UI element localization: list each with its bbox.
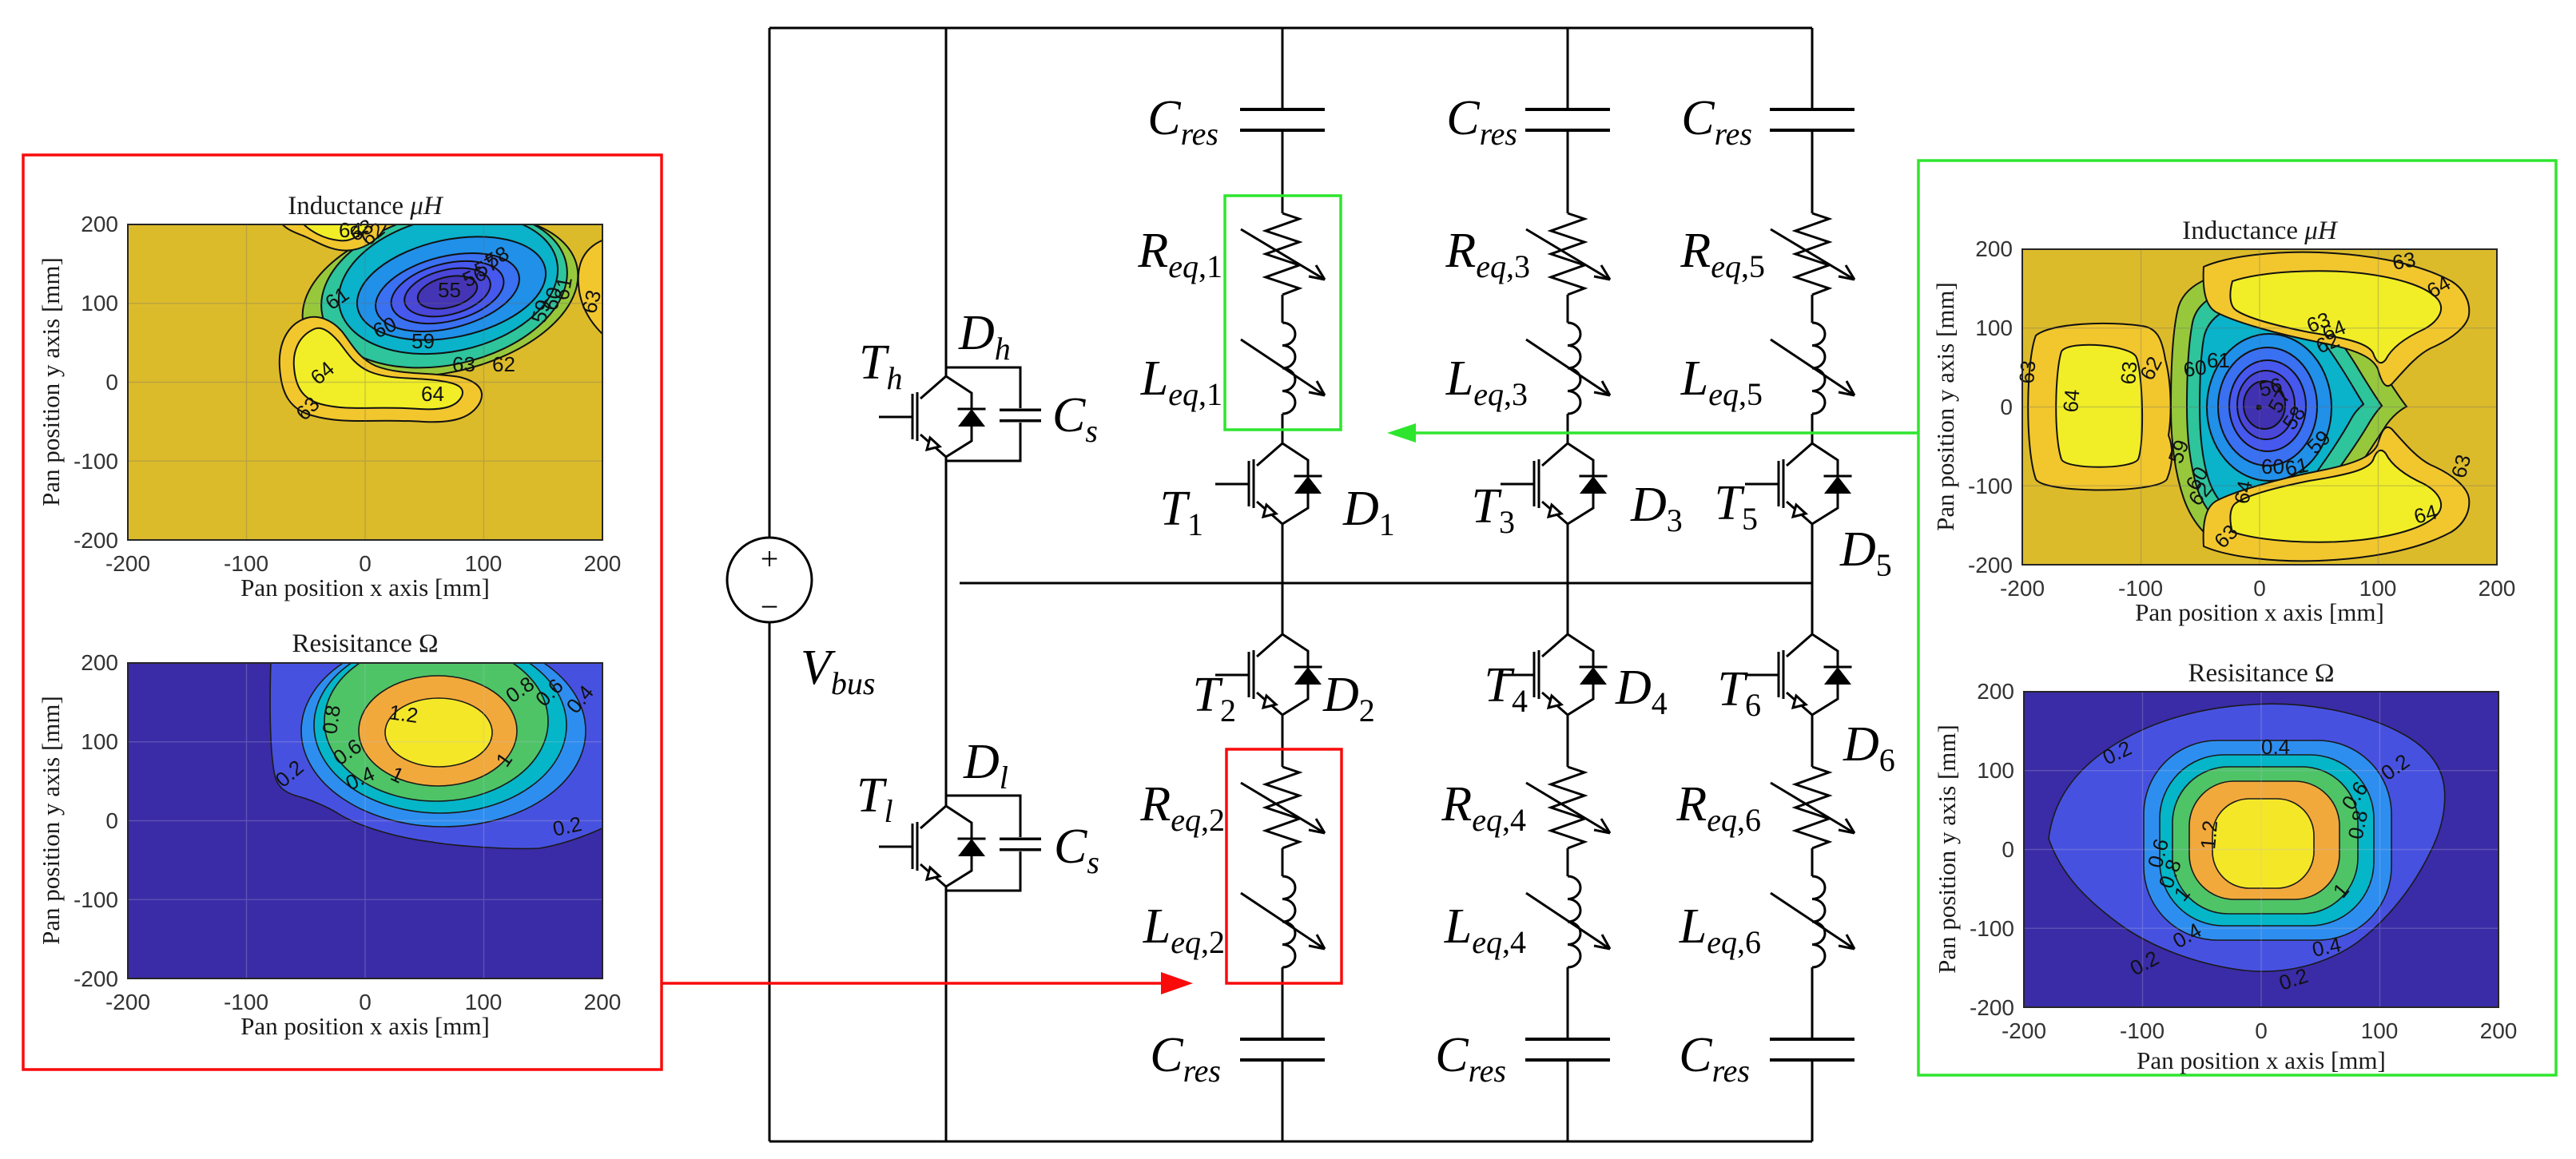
contour band 63-64 top-left (left inductance) [281,223,387,251]
svg-text:T4: T4 [1485,658,1528,719]
svg-text:Inductance μH: Inductance μH [288,192,444,220]
contour ring 62 green (left inductance) [288,191,594,401]
red highlight frame (left plots) [23,155,662,1070]
label D1 [1342,482,1395,542]
transistor T6 with diode D6 [1745,634,1852,715]
svg-text:Pan position x axis [mm]: Pan position x axis [mm] [2135,598,2384,626]
svg-text:-200: -200 [2002,1018,2046,1043]
resistor Req6 [1771,767,1854,848]
inductor Leq3 [1526,323,1610,414]
svg-text:100: 100 [2361,1018,2399,1043]
contour band 63 top-right banana (right inductance) [2204,252,2470,387]
svg-text:Cres: Cres [1435,1028,1506,1089]
svg-text:Cres: Cres [1147,91,1218,152]
svg-text:T2: T2 [1193,668,1236,728]
svg-text:Cres: Cres [1150,1028,1221,1089]
contour band 0.4 azure (left resistance) [301,635,586,827]
svg-text:D3: D3 [1630,478,1683,538]
y axis label (left resistance) [37,696,65,945]
label Leq6 [1679,899,1761,960]
transistor T3 with diode D3 [1501,443,1608,524]
label T1 [1160,482,1203,542]
label Th [859,335,902,396]
label Leq1 [1140,351,1222,412]
contour band 63 bottom-right banana (right inductance) [2204,427,2470,562]
wire top bus [769,27,1812,30]
svg-text:Pan position x axis [mm]: Pan position x axis [mm] [241,1012,490,1040]
svg-text:0: 0 [2002,837,2014,862]
label Req6 [1676,777,1761,838]
inductor Leq2 [1241,876,1325,967]
inductor Leq1 [1241,323,1325,414]
x tick labels (right inductance) [2000,576,2515,601]
svg-text:100: 100 [1975,316,2013,340]
svg-text:Leq,2: Leq,2 [1143,899,1225,960]
label T2 [1193,668,1236,728]
resistor Req2 [1241,767,1325,848]
svg-text:-200: -200 [1970,995,2014,1020]
contour ring 62 teal (right inductance) [2187,285,2382,535]
svg-text:200: 200 [584,551,622,576]
svg-text:60: 60 [2182,355,2208,382]
contour ring 56 indigo (left inductance) [400,260,495,325]
svg-text:0.4: 0.4 [2261,735,2290,759]
label Cs lower [1054,820,1099,880]
svg-text:64: 64 [421,382,444,406]
contour band 63 around yellow banana (left inductance) [280,317,482,423]
grid lines (right resistance) [2024,692,2498,1007]
label Req1 [1137,224,1222,284]
wire half-bridge leg [945,28,948,1141]
svg-text:Pan position x axis [mm]: Pan position x axis [mm] [241,574,490,601]
capacitor Cres branch3 top [1770,109,1854,130]
svg-text:Req,6: Req,6 [1676,777,1761,838]
contour band 1.2 yellow (right resistance) [2212,799,2314,888]
svg-text:200: 200 [584,990,622,1014]
highlight red box around Req2/Leq2 [1226,749,1342,983]
contour ring 59 azure (left inductance) [348,220,555,355]
plot background (right inductance) [2022,249,2497,565]
wire branch3 column segments [1811,28,1814,1141]
svg-text:T1: T1 [1160,482,1203,542]
svg-text:Pan position x axis [mm]: Pan position x axis [mm] [2137,1046,2386,1074]
svg-text:0: 0 [2253,576,2266,601]
contour ring 61 cyan (right inductance) [2200,302,2363,519]
svg-text:Leq,5: Leq,5 [1680,351,1763,412]
inductor Leq6 [1771,876,1854,967]
label Cres branch3 bottom [1679,1028,1750,1089]
label D4 [1615,661,1668,721]
label Vbus [801,641,875,701]
contour value labels (left resistance) [271,672,598,841]
svg-text:Cs: Cs [1054,820,1099,880]
snubber capacitor Cs (lower) wire loop [946,796,1020,891]
contour ring 61 teal (left inductance) [307,189,582,390]
contour band 1.0 orange (right resistance) [2189,781,2339,899]
svg-text:-100: -100 [224,551,268,576]
contour ring 60 azure (right inductance) [2207,334,2332,481]
svg-text:Leq,1: Leq,1 [1140,351,1222,412]
svg-text:-200: -200 [2000,576,2045,601]
label Dh [958,306,1011,367]
contour band 64 bottom-right banana (right inductance) [2230,451,2441,542]
svg-text:1.2: 1.2 [388,700,419,728]
svg-text:-200: -200 [105,990,150,1014]
x tick labels (left resistance) [105,990,621,1014]
svg-text:Pan position y axis [mm]: Pan position y axis [mm] [1931,282,1959,531]
svg-text:0.8: 0.8 [317,704,345,736]
y tick labels (left resistance) [74,650,118,991]
svg-text:+: + [761,541,779,577]
svg-text:-200: -200 [74,966,118,991]
svg-text:61: 61 [2283,453,2311,481]
resistor Req4 [1526,767,1610,848]
svg-text:64: 64 [2229,478,2257,506]
svg-text:-100: -100 [74,449,118,474]
label Req2 [1139,777,1225,838]
label Cs upper [1052,388,1098,449]
svg-text:0: 0 [2255,1018,2268,1043]
label Cres branch1 bottom [1150,1028,1221,1089]
contour band 63 left block (right inductance) [2028,323,2172,490]
axes frame (left resistance) [128,663,602,978]
capacitor Cres branch1 bottom [1240,1039,1325,1060]
svg-text:Leq,3: Leq,3 [1445,351,1528,412]
resistor Req3 [1526,213,1610,295]
contour ring 63 green (right inductance) [2171,268,2407,554]
svg-text:1.2: 1.2 [2196,820,2222,851]
svg-text:-200: -200 [74,528,118,553]
capacitor Cs upper [1000,410,1041,420]
contour band 1.0 orange (left resistance) [359,676,517,786]
contour band 0.6 cyan (right resistance) [2160,755,2374,926]
svg-text:D5: D5 [1839,522,1892,583]
label D3 [1630,478,1683,538]
svg-text:100: 100 [81,729,118,754]
svg-text:0: 0 [105,808,118,833]
label D6 [1843,717,1895,778]
svg-text:-200: -200 [105,551,150,576]
resistor Req5 [1771,213,1854,295]
svg-text:Leq,6: Leq,6 [1679,899,1761,960]
label Cres branch1 top [1147,91,1218,152]
resistor Req1 [1241,213,1325,295]
wire branch1 column segments [1282,28,1284,1141]
capacitor Cres branch2 top [1525,109,1610,130]
svg-text:Pan position y axis [mm]: Pan position y axis [mm] [37,696,65,945]
wire mid output line [960,582,1812,585]
plot background (left inductance) [128,224,602,540]
wire bottom bus [769,1141,1812,1143]
svg-text:100: 100 [2359,576,2397,601]
contour value labels (right inductance) [2014,247,2475,553]
svg-text:200: 200 [81,212,118,236]
contour band 0.2 royal (right resistance) [2049,704,2445,971]
svg-text:61: 61 [2207,348,2230,372]
contour value labels (right resistance) [2099,735,2414,995]
contour ring 56 core (right inductance) [2244,381,2285,429]
svg-text:0: 0 [105,370,118,395]
svg-text:-100: -100 [1970,916,2014,941]
inductor Leq5 [1771,323,1854,414]
contour band 0.2 royal (left resistance) [270,660,604,848]
transistor T1 with diode D1 [1215,443,1322,524]
label Cres branch2 bottom [1435,1028,1506,1089]
transistor Th [879,376,986,457]
voltage source Vbus [727,538,812,622]
svg-text:Resisitance Ω: Resisitance Ω [292,629,438,658]
label Tl [857,768,893,829]
svg-text:Pan position y axis [mm]: Pan position y axis [mm] [1933,724,1961,974]
svg-text:100: 100 [465,990,503,1014]
contour band 0.8 green (left resistance) [324,641,548,801]
transistor Tl [879,806,986,887]
contour ring 58 royal (right inductance) [2229,360,2306,451]
contour band 0.4 azure (right resistance) [2144,740,2391,940]
plot background (right resistance) [2024,692,2498,1007]
svg-text:Pan position y axis [mm]: Pan position y axis [mm] [37,257,65,506]
label Req3 [1445,224,1530,284]
x tick labels (right resistance) [2002,1018,2517,1043]
label Req4 [1441,777,1526,838]
svg-text:Req,5: Req,5 [1680,224,1765,284]
contour band 1.2 yellow (left resistance) [385,698,492,767]
svg-text:-100: -100 [74,887,118,912]
svg-text:63: 63 [2116,360,2141,385]
capacitor Cres branch3 bottom [1770,1039,1854,1060]
title (right inductance) [2182,216,2339,245]
svg-text:100: 100 [81,291,118,316]
svg-text:-200: -200 [1968,553,2013,578]
svg-text:63: 63 [2391,247,2418,275]
y axis label (left inductance) [37,257,65,506]
title (left inductance) [288,192,444,220]
svg-text:-100: -100 [224,990,268,1014]
contour ring 58 blue (left inductance) [368,240,527,345]
svg-text:T3: T3 [1472,479,1515,540]
wire branch2 column segments [1567,28,1569,1141]
svg-text:Inductance μH: Inductance μH [2182,216,2339,245]
grid lines (right inductance) [2022,249,2497,565]
x axis label (right resistance) [2137,1046,2386,1074]
svg-text:200: 200 [2480,1018,2518,1043]
svg-text:Cres: Cres [1446,91,1517,152]
label T5 [1715,476,1758,537]
y tick labels (right inductance) [1968,236,2013,578]
svg-text:-100: -100 [2118,576,2163,601]
svg-text:Cres: Cres [1681,91,1752,152]
svg-text:Cs: Cs [1052,388,1098,449]
svg-text:D1: D1 [1342,482,1395,542]
x axis label (left resistance) [241,1012,490,1040]
label Cres branch2 top [1446,91,1517,152]
contour band 0.8 green (right resistance) [2173,767,2358,914]
svg-text:Tl: Tl [857,768,893,829]
svg-text:-100: -100 [2120,1018,2165,1043]
svg-text:T6: T6 [1718,662,1761,723]
label T4 [1485,658,1528,719]
axes frame (left inductance) [128,224,602,540]
label Dl [963,735,1008,796]
transistor T5 with diode D5 [1745,443,1852,524]
y axis label (right resistance) [1933,724,1961,974]
svg-text:Dh: Dh [958,306,1011,367]
wire left bus upper [769,28,771,538]
svg-text:Req,3: Req,3 [1445,224,1530,284]
svg-text:Req,2: Req,2 [1139,777,1225,838]
svg-text:-100: -100 [1968,474,2013,498]
svg-text:200: 200 [2479,576,2516,601]
svg-text:Th: Th [859,335,902,396]
contour band 64 left block (right inductance) [2056,345,2142,467]
green callout arrow [1387,423,1918,443]
label Cres branch3 top [1681,91,1752,152]
label D5 [1839,522,1892,583]
grid lines (left inductance) [128,224,602,540]
label Req5 [1680,224,1765,284]
svg-text:Resisitance Ω: Resisitance Ω [2188,659,2334,688]
svg-text:64: 64 [2058,388,2084,413]
transistor T2 with diode D2 [1215,634,1322,715]
red callout arrow [662,972,1193,994]
contour band 63-64 right edge (left inductance) [578,240,604,335]
contour band 64 yellow banana (left inductance) [294,328,463,410]
title (right resistance) [2188,659,2334,688]
svg-text:200: 200 [1975,236,2013,261]
x tick labels (left inductance) [105,551,621,576]
axes frame (right inductance) [2022,249,2497,565]
y axis label (right inductance) [1931,282,1959,531]
svg-text:Req,1: Req,1 [1137,224,1222,284]
svg-text:0: 0 [2000,395,2013,419]
y tick labels (left inductance) [74,212,118,553]
capacitor Cs lower [1000,839,1041,849]
y tick labels (right resistance) [1970,679,2014,1020]
green highlight frame (right plots) [1918,161,2556,1075]
contour band 64 top-left (left inductance) [302,223,369,240]
svg-text:Cres: Cres [1679,1028,1750,1089]
label T6 [1718,662,1761,723]
label D2 [1322,668,1375,728]
svg-text:59: 59 [411,329,435,353]
x axis label (left inductance) [241,574,490,601]
svg-text:55: 55 [438,278,461,302]
svg-text:Req,4: Req,4 [1441,777,1526,838]
svg-text:63: 63 [452,352,475,376]
svg-text:200: 200 [81,650,118,675]
svg-text:0: 0 [359,551,372,576]
svg-text:D2: D2 [1322,668,1375,728]
contour ring 60 cyan (left inductance) [326,196,571,373]
svg-text:Vbus: Vbus [801,641,875,701]
contour band 0.6 cyan (left resistance) [314,637,566,813]
inductor Leq4 [1526,876,1610,967]
contour ring 59 blue (right inductance) [2218,347,2317,466]
svg-text:61: 61 [549,275,577,302]
transistor T4 with diode D4 [1501,634,1608,715]
contour ring 55 core (left inductance) [415,270,481,314]
title (left resistance) [292,629,438,658]
svg-text:Leq,4: Leq,4 [1444,899,1526,960]
plot background (left resistance) [128,663,602,978]
axes frame (right resistance) [2024,692,2498,1007]
svg-text:200: 200 [1977,679,2014,704]
contour band 64 top-right banana (right inductance) [2230,271,2441,363]
svg-text:62: 62 [492,352,515,376]
contour ring 57 indigo (right inductance) [2237,371,2295,439]
svg-text:100: 100 [1977,758,2014,783]
label Leq3 [1445,351,1528,412]
svg-text:−: − [761,589,779,625]
svg-text:100: 100 [465,551,503,576]
contour value labels (left inductance) [291,214,606,425]
snubber capacitor Cs (upper) wire loop [946,367,1020,461]
label Leq4 [1444,899,1526,960]
grid lines (left resistance) [128,663,602,978]
capacitor Cres branch1 top [1240,109,1325,130]
wire left bus lower [769,622,771,1141]
svg-text:D6: D6 [1843,717,1895,778]
svg-text:0: 0 [359,990,372,1014]
capacitor Cres branch2 bottom [1525,1039,1610,1060]
svg-text:D4: D4 [1615,661,1668,721]
label Leq5 [1680,351,1763,412]
svg-text:Dl: Dl [963,735,1008,796]
svg-text:63: 63 [2014,359,2040,384]
label T3 [1472,479,1515,540]
svg-text:60: 60 [2261,454,2284,478]
contour ring 57 royal (left inductance) [384,251,510,335]
x axis label (right inductance) [2135,598,2384,626]
highlight green box around Req1/Leq1 [1225,196,1341,430]
label Leq2 [1143,899,1225,960]
